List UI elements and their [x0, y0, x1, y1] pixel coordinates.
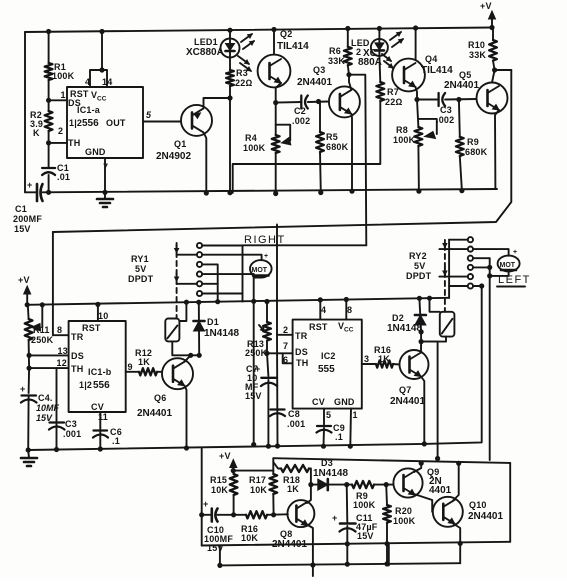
wire: RY2 bus — [448, 240, 450, 298]
svg-text:RIGHT: RIGHT — [244, 234, 286, 246]
wire: column to C4 — [28, 368, 31, 393]
svg-text:+V: +V — [219, 451, 231, 461]
resistor R18 — [281, 465, 309, 494]
svg-text:Q5: Q5 — [459, 70, 471, 80]
potentiometer R13 — [245, 322, 271, 358]
power +V bottom — [219, 451, 237, 471]
svg-text:R8: R8 — [396, 125, 408, 135]
svg-text:DS: DS — [71, 351, 84, 361]
resistor R1 — [45, 62, 75, 81]
wire: Q4 emitter down — [416, 87, 418, 100]
wire: R9 to ground rail — [460, 156, 462, 191]
wire: pin 9 to R12 — [126, 371, 139, 373]
wire: C3 to Q5 base — [445, 98, 476, 101]
svg-text:.1: .1 — [335, 432, 343, 442]
wire: collector feed line — [273, 458, 510, 463]
wire: RY1 row5 right — [202, 283, 218, 285]
svg-text:2N4401: 2N4401 — [390, 396, 425, 407]
svg-text:100K: 100K — [393, 516, 416, 526]
svg-text:250K: 250K — [31, 335, 54, 345]
svg-text:RST: RST — [309, 322, 328, 332]
relay RY1 contacts — [197, 243, 202, 296]
svg-text:MOT: MOT — [252, 267, 268, 274]
svg-text:DPDT: DPDT — [406, 271, 432, 281]
svg-text:.002: .002 — [292, 116, 310, 126]
svg-text:C3: C3 — [65, 419, 77, 429]
LED LED2 (XC880A) — [351, 38, 388, 68]
svg-text:R5: R5 — [326, 132, 338, 142]
svg-text:LED1: LED1 — [194, 37, 218, 47]
wire: C4 to bottom rail — [27, 397, 29, 450]
relay RY2 coil — [440, 312, 455, 337]
wire: RY2 row6 right — [473, 285, 482, 287]
wire: rail to LED1 — [229, 30, 231, 39]
wire: base node line — [218, 514, 247, 516]
wire: RY1 motor return — [253, 274, 255, 445]
resistor R20 — [383, 505, 416, 526]
wire: D3 anode lead — [311, 484, 318, 486]
svg-text:2N4401: 2N4401 — [297, 77, 332, 88]
svg-text:22Ω: 22Ω — [385, 97, 403, 107]
svg-text:CV: CV — [91, 402, 104, 412]
svg-text:DS: DS — [295, 347, 308, 357]
wire: +V mid rail — [27, 298, 449, 305]
op-amp IC1-b (1/2 556) — [69, 321, 126, 412]
svg-text:RST: RST — [82, 323, 101, 333]
svg-text:TIL414: TIL414 — [421, 65, 453, 76]
svg-text:2: 2 — [58, 126, 63, 136]
wire: coupling to IC1-b TR — [53, 232, 69, 335]
wire: D1 column — [198, 302, 200, 355]
svg-text:1: 1 — [353, 410, 358, 420]
svg-text:5: 5 — [326, 410, 331, 420]
svg-text:C2: C2 — [294, 106, 306, 116]
wire: R13 column top — [266, 302, 268, 323]
wire: R3 to node and ground — [229, 86, 231, 193]
timer IC2 (555) — [293, 320, 362, 409]
wire: Q4 emitter node down — [417, 100, 418, 128]
resistor R16 10K — [241, 511, 267, 543]
wire: R19 to Q9 base — [374, 484, 393, 486]
svg-text:+: + — [264, 253, 268, 260]
relay RY2 armature (dashed) — [444, 245, 446, 312]
light arrows into Q2 — [238, 56, 251, 71]
transistor Q7 (2N4401) — [390, 350, 429, 407]
junction dots (mid ground rail) — [26, 442, 426, 452]
capacitor C3 .002 — [436, 93, 454, 125]
svg-text:2N4401: 2N4401 — [444, 80, 479, 91]
wire: pin 10 to rail — [97, 304, 99, 321]
wire: R5 to ground rail — [319, 152, 322, 193]
svg-text:R20: R20 — [395, 506, 412, 516]
wire: RY2 row4 — [473, 266, 490, 268]
svg-text:+V: +V — [480, 1, 492, 11]
svg-text:1N4148: 1N4148 — [204, 328, 239, 339]
svg-text:10K: 10K — [250, 485, 267, 495]
wire: ground rail (top) — [25, 191, 37, 193]
svg-text:Q2: Q2 — [280, 29, 292, 39]
svg-text:R9: R9 — [467, 137, 479, 147]
wire: pin 2 lead — [49, 142, 67, 144]
svg-text:C8: C8 — [288, 409, 300, 419]
wire: pin 5 to C9 — [323, 409, 325, 425]
junction dots (top ground rail) — [47, 189, 465, 196]
wire: R6 to node — [348, 65, 349, 75]
svg-text:C3: C3 — [440, 105, 452, 115]
svg-text:Q7: Q7 — [399, 385, 411, 395]
R8 wiper — [418, 119, 436, 134]
potentiometer R4 — [243, 133, 280, 153]
R13 wiper — [259, 325, 265, 332]
transistor Q5 (2N4401) — [444, 70, 508, 114]
wire: C6 to bottom rail — [99, 432, 101, 449]
svg-text:IC2: IC2 — [321, 351, 336, 361]
svg-text:3: 3 — [364, 354, 369, 364]
wire: RY1 row3 — [202, 264, 218, 283]
svg-text:OUT: OUT — [106, 118, 126, 128]
svg-text:22Ω: 22Ω — [235, 78, 253, 88]
potentiometer R8 — [393, 125, 422, 146]
op-amp IC1-a (1/2 556) — [67, 87, 143, 158]
wire: pin 4 to rail — [319, 300, 321, 320]
wire: R17 bottom — [272, 494, 274, 515]
ground (top section) — [97, 192, 113, 207]
wire: RY1 feed line from Q3 — [243, 244, 367, 246]
capacitor C1 200MF — [13, 180, 43, 234]
svg-text:2N4401: 2N4401 — [468, 511, 503, 522]
wire: R7 return path — [233, 101, 381, 193]
wire: bottom left border — [201, 449, 203, 546]
svg-text:12: 12 — [57, 358, 67, 368]
diode D3 (1N4148) — [313, 458, 348, 490]
capacitor C2 .002 — [292, 96, 310, 127]
svg-text:R17: R17 — [249, 475, 266, 485]
wire: node stub right — [495, 69, 512, 71]
wire: R2 to TH — [48, 131, 50, 143]
svg-text:4401: 4401 — [429, 485, 452, 496]
wire: R1 column — [48, 32, 50, 64]
svg-text:1K: 1K — [378, 354, 390, 364]
wire: Q6 emitter to bottom rail — [185, 386, 187, 448]
svg-text:+: + — [203, 499, 208, 509]
potentiometer R11 — [25, 319, 54, 345]
wire: R4 to ground rail — [275, 153, 277, 194]
wire: RY1 row5 — [177, 283, 197, 285]
wire: Q1 collector to R3 node — [204, 98, 231, 108]
wire: C10 left lead — [202, 514, 212, 516]
svg-text:GND: GND — [85, 147, 106, 157]
R11 wiper — [41, 305, 43, 327]
wire: R13 to DS junction — [266, 341, 268, 354]
wire: C11 to rails — [346, 526, 348, 565]
wire: RY1 row4 — [202, 273, 254, 275]
svg-text:Q1: Q1 — [174, 139, 186, 149]
svg-text:C4.: C4. — [38, 393, 53, 403]
wire: pin 7 to ground — [104, 158, 106, 192]
resistor R16 1K — [374, 345, 393, 368]
svg-text:R3: R3 — [236, 68, 248, 78]
svg-text:1|2: 1|2 — [79, 380, 92, 390]
wire: Q8 collector — [307, 485, 311, 503]
svg-text:DPDT: DPDT — [128, 274, 154, 284]
svg-text:2: 2 — [356, 47, 361, 57]
svg-text:R4: R4 — [245, 133, 257, 143]
svg-text:555: 555 — [318, 364, 335, 375]
capacitor C4 10MF — [20, 384, 60, 423]
wire: R18 to D3 — [309, 469, 311, 485]
svg-text:CC: CC — [344, 327, 354, 334]
resistor R3 — [226, 68, 252, 88]
LED LED1 (XC880A) — [186, 37, 240, 58]
wire: lower rail right link — [459, 543, 461, 563]
wire: C2 to Q3 base — [308, 101, 329, 104]
wire: Q8 emitter stub — [312, 565, 314, 576]
wire: DS lead pin7 — [267, 352, 293, 354]
wire: TH lead (pin 12) — [29, 367, 69, 369]
wire: Q2 emitter node down — [275, 103, 277, 135]
svg-text:100K: 100K — [393, 135, 416, 145]
wire: C3 to bottom rail — [56, 424, 58, 450]
svg-text:+: + — [27, 180, 32, 190]
wire: LED2 to R7 — [378, 56, 381, 82]
junction dots (bottom) — [200, 456, 463, 567]
ground (mid section) — [21, 450, 37, 466]
wire: Q7 collector — [420, 342, 422, 353]
svg-text:+: + — [513, 249, 517, 256]
svg-text:.001: .001 — [63, 429, 81, 439]
svg-text:250K: 250K — [245, 348, 268, 358]
motor M2 (LEFT) — [498, 249, 520, 271]
svg-text:100K: 100K — [353, 500, 376, 510]
transistor Q3 (2N4401) — [297, 65, 360, 117]
svg-text:R7: R7 — [387, 87, 399, 97]
relay RY2 armature arrows — [443, 240, 447, 275]
wire: Q2 emitter down — [276, 83, 281, 103]
resistor R2 — [30, 110, 53, 138]
wire: Q4 collector to rail — [415, 28, 417, 60]
svg-text:556: 556 — [93, 380, 110, 391]
wire: rail to LED2 — [378, 29, 380, 39]
svg-text:D1: D1 — [207, 317, 219, 327]
wire: TH jog pin6 — [283, 353, 293, 363]
capacitor C6 .1 — [93, 427, 122, 446]
resistor R10 — [468, 40, 497, 61]
wire: R16 to Q7 base — [393, 363, 400, 366]
svg-text:1K: 1K — [287, 484, 299, 494]
svg-text:CC: CC — [97, 96, 107, 103]
wire: R17 top corner — [272, 458, 274, 474]
svg-text:8: 8 — [57, 325, 62, 335]
wire: RY2 row5 — [439, 276, 467, 278]
resistor R7 — [376, 82, 402, 107]
svg-text:10K: 10K — [241, 533, 258, 543]
light arrows into Q4 — [382, 54, 393, 68]
svg-text:.002: .002 — [436, 115, 454, 125]
wire: R8 to ground rail — [417, 146, 420, 191]
wire: pin 8 to rail — [345, 300, 347, 320]
svg-text:R15: R15 — [210, 475, 227, 485]
wire: Q3 emitter to ground — [350, 114, 353, 191]
svg-text:880A: 880A — [358, 57, 382, 68]
svg-text:+: + — [332, 513, 337, 523]
wire: mid ground rail — [28, 444, 424, 450]
junction dots (top rail) — [47, 25, 495, 33]
diode D2 (1N4148) — [387, 313, 426, 334]
wire: R10 to Q5 collector node — [492, 61, 495, 83]
capacitor C11 47MF — [332, 513, 378, 541]
relay RY1 armature arrows — [175, 245, 179, 281]
svg-text:XC880A: XC880A — [186, 47, 224, 58]
resistor R9 — [456, 137, 488, 157]
wire: R16 to Q8 base — [267, 513, 288, 516]
wire: D2 column — [419, 298, 421, 341]
relay RY2 contacts — [468, 237, 473, 289]
svg-text:1K: 1K — [138, 357, 150, 367]
svg-text:R6: R6 — [329, 46, 341, 56]
wire: TH to C3 column — [56, 368, 58, 421]
wire: R1-R2 node to pin1 — [48, 80, 50, 111]
wire: +V top rail — [25, 28, 492, 33]
svg-text:15V: 15V — [245, 391, 262, 401]
resistor R12 — [135, 348, 157, 375]
wire: lower rail — [220, 563, 460, 565]
wire: lower rail link — [388, 544, 390, 565]
wire: RY2 row2 to motor — [473, 249, 509, 256]
svg-text:15V: 15V — [357, 531, 374, 541]
resistor R19 100K — [352, 481, 376, 510]
svg-text:Q8: Q8 — [280, 529, 292, 539]
power +V top right — [480, 1, 496, 28]
svg-text:Q4: Q4 — [425, 54, 437, 64]
svg-text:1: 1 — [61, 90, 66, 100]
svg-text:2N4401: 2N4401 — [137, 408, 172, 419]
svg-text:.01: .01 — [57, 172, 70, 182]
wire: pin 1 lead — [49, 99, 67, 101]
capacitor C10 100MF — [203, 499, 233, 553]
svg-text:C1: C1 — [15, 204, 27, 214]
wire: node to C3 — [417, 99, 439, 101]
wire: pin 5 OUT to Q1 base — [143, 121, 181, 123]
wire: box right edge — [509, 463, 511, 542]
wire: R20 column top — [385, 485, 388, 505]
resistor R15 — [210, 474, 238, 495]
wire: RY1 row2 to motor — [202, 255, 262, 261]
wire: pin 3 lead — [362, 363, 376, 365]
svg-text:33K: 33K — [469, 50, 486, 60]
capacitor C3 .001 — [49, 419, 81, 439]
svg-text:10: 10 — [98, 311, 108, 321]
wire: RY2 rows3/4 column — [489, 258, 491, 460]
capacitor C1 .01 — [42, 163, 70, 182]
wire: RY1 rows3/5 to rail — [217, 284, 219, 302]
wire: RY2 row2 left — [439, 248, 467, 250]
wire: CV pin 11 to C6 — [99, 412, 101, 429]
wire: R2 to C1 — [48, 143, 50, 167]
svg-text:Q6: Q6 — [154, 393, 166, 403]
svg-text:5V: 5V — [135, 264, 146, 274]
svg-text:TH: TH — [71, 364, 83, 374]
svg-text:TH: TH — [296, 358, 308, 368]
transistor Q6 (2N4401) — [137, 358, 193, 419]
R4 wiper — [276, 125, 291, 141]
svg-text:.001: .001 — [287, 419, 305, 429]
svg-text:1N4148: 1N4148 — [313, 468, 348, 479]
svg-text:100K: 100K — [243, 143, 266, 153]
svg-text:2: 2 — [283, 325, 288, 335]
wire: Q8 emitter — [307, 525, 313, 566]
wire: C7 to bottom rail — [267, 380, 269, 446]
svg-text:7: 7 — [283, 341, 288, 351]
transistor Q1 (2N4902) — [156, 105, 212, 162]
wire: RY1 coil to Q6 collector — [172, 341, 199, 355]
transistor Q9 (2N4401) — [393, 467, 451, 498]
wire: R20 to rails — [386, 523, 388, 566]
svg-text:D2: D2 — [392, 313, 404, 323]
svg-text:MOT: MOT — [500, 262, 516, 269]
svg-text:100K: 100K — [52, 71, 75, 81]
wire: RY1 row2 — [177, 254, 197, 256]
wire: Q10 collector — [453, 463, 459, 500]
light arrows from LED1 — [241, 34, 254, 49]
svg-text:.1: .1 — [112, 436, 120, 446]
wire: rail to R6 — [347, 29, 349, 47]
svg-text:TR: TR — [71, 332, 84, 342]
svg-text:680K: 680K — [465, 147, 488, 157]
diode D1 (1N4148) — [194, 317, 240, 339]
wire: C7 column — [267, 353, 268, 376]
wire: pins 4/14 to rail — [90, 70, 107, 87]
svg-text:RY1: RY1 — [131, 254, 149, 264]
junction dots (top mid) — [47, 68, 497, 145]
svg-text:8: 8 — [347, 305, 352, 315]
wire: DS lead (pin 13) — [29, 354, 69, 356]
wire: Q10 emitter — [453, 524, 460, 544]
resistor R5 — [316, 132, 349, 152]
capacitor C8 .001 — [270, 409, 305, 429]
wire: ground rail (top) main — [43, 189, 498, 192]
wire: +V node line — [233, 470, 273, 472]
svg-text:5V: 5V — [414, 261, 425, 271]
svg-text:680K: 680K — [326, 142, 349, 152]
transistor Q2 (TIL414) — [258, 29, 310, 87]
wire: C1 to ground rail — [48, 175, 50, 192]
svg-text:1N4148: 1N4148 — [387, 323, 422, 334]
svg-text:200MF: 200MF — [13, 214, 42, 224]
wire: R15 to base node — [233, 495, 235, 515]
wire: Q2 collector to rail — [273, 30, 275, 55]
svg-text:13: 13 — [58, 346, 68, 356]
wire: RY2 motor return — [424, 286, 481, 444]
wire: LEFT motor minus lead — [490, 271, 509, 276]
svg-text:GND: GND — [334, 397, 355, 407]
svg-text:Q3: Q3 — [313, 65, 325, 75]
svg-text:TH: TH — [68, 138, 80, 148]
svg-text:10K: 10K — [211, 485, 228, 495]
transistor Q8 (2N4401) — [272, 500, 314, 550]
transistor Q4 (TIL414) — [392, 54, 453, 91]
wire: RIGHT motor minus lead — [254, 277, 262, 279]
svg-text:556: 556 — [82, 118, 99, 129]
wire: lower rail left link — [219, 545, 221, 565]
wire: TR column (coupling and C8) — [276, 225, 278, 335]
wire: Q7 emitter to bottom rail — [421, 377, 424, 443]
relay RY1 armature (dashed) — [176, 243, 178, 318]
wire: R15 to node — [233, 471, 235, 474]
svg-text:+: + — [20, 384, 25, 394]
wire: RY2 row1 — [449, 239, 468, 241]
wire: LED1 to R3 — [229, 58, 231, 71]
svg-text:15V: 15V — [14, 224, 31, 234]
